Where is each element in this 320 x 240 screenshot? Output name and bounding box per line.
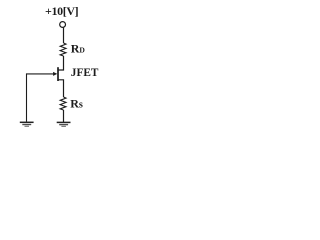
svg-text:Rs: Rs <box>70 96 83 110</box>
ground (left) <box>20 122 34 126</box>
JFET gate wire <box>27 73 55 75</box>
wire: RD to JFET drain <box>58 56 63 70</box>
JFET gate arrowhead <box>53 72 57 76</box>
wire: terminal to RD <box>63 28 65 43</box>
resistor RD <box>60 43 66 56</box>
svg-text:RD: RD <box>71 42 86 56</box>
wire: RS to ground <box>63 110 65 122</box>
wire: gate down to ground <box>26 73 28 121</box>
resistor RS <box>60 97 66 110</box>
supply terminal circle <box>60 22 66 28</box>
svg-text:+10[V]: +10[V] <box>45 4 79 18</box>
svg-text:JFET: JFET <box>71 67 99 79</box>
ground (right) <box>57 122 71 126</box>
transistor JFET channel bar <box>57 67 59 81</box>
JFET source lead <box>58 80 63 97</box>
